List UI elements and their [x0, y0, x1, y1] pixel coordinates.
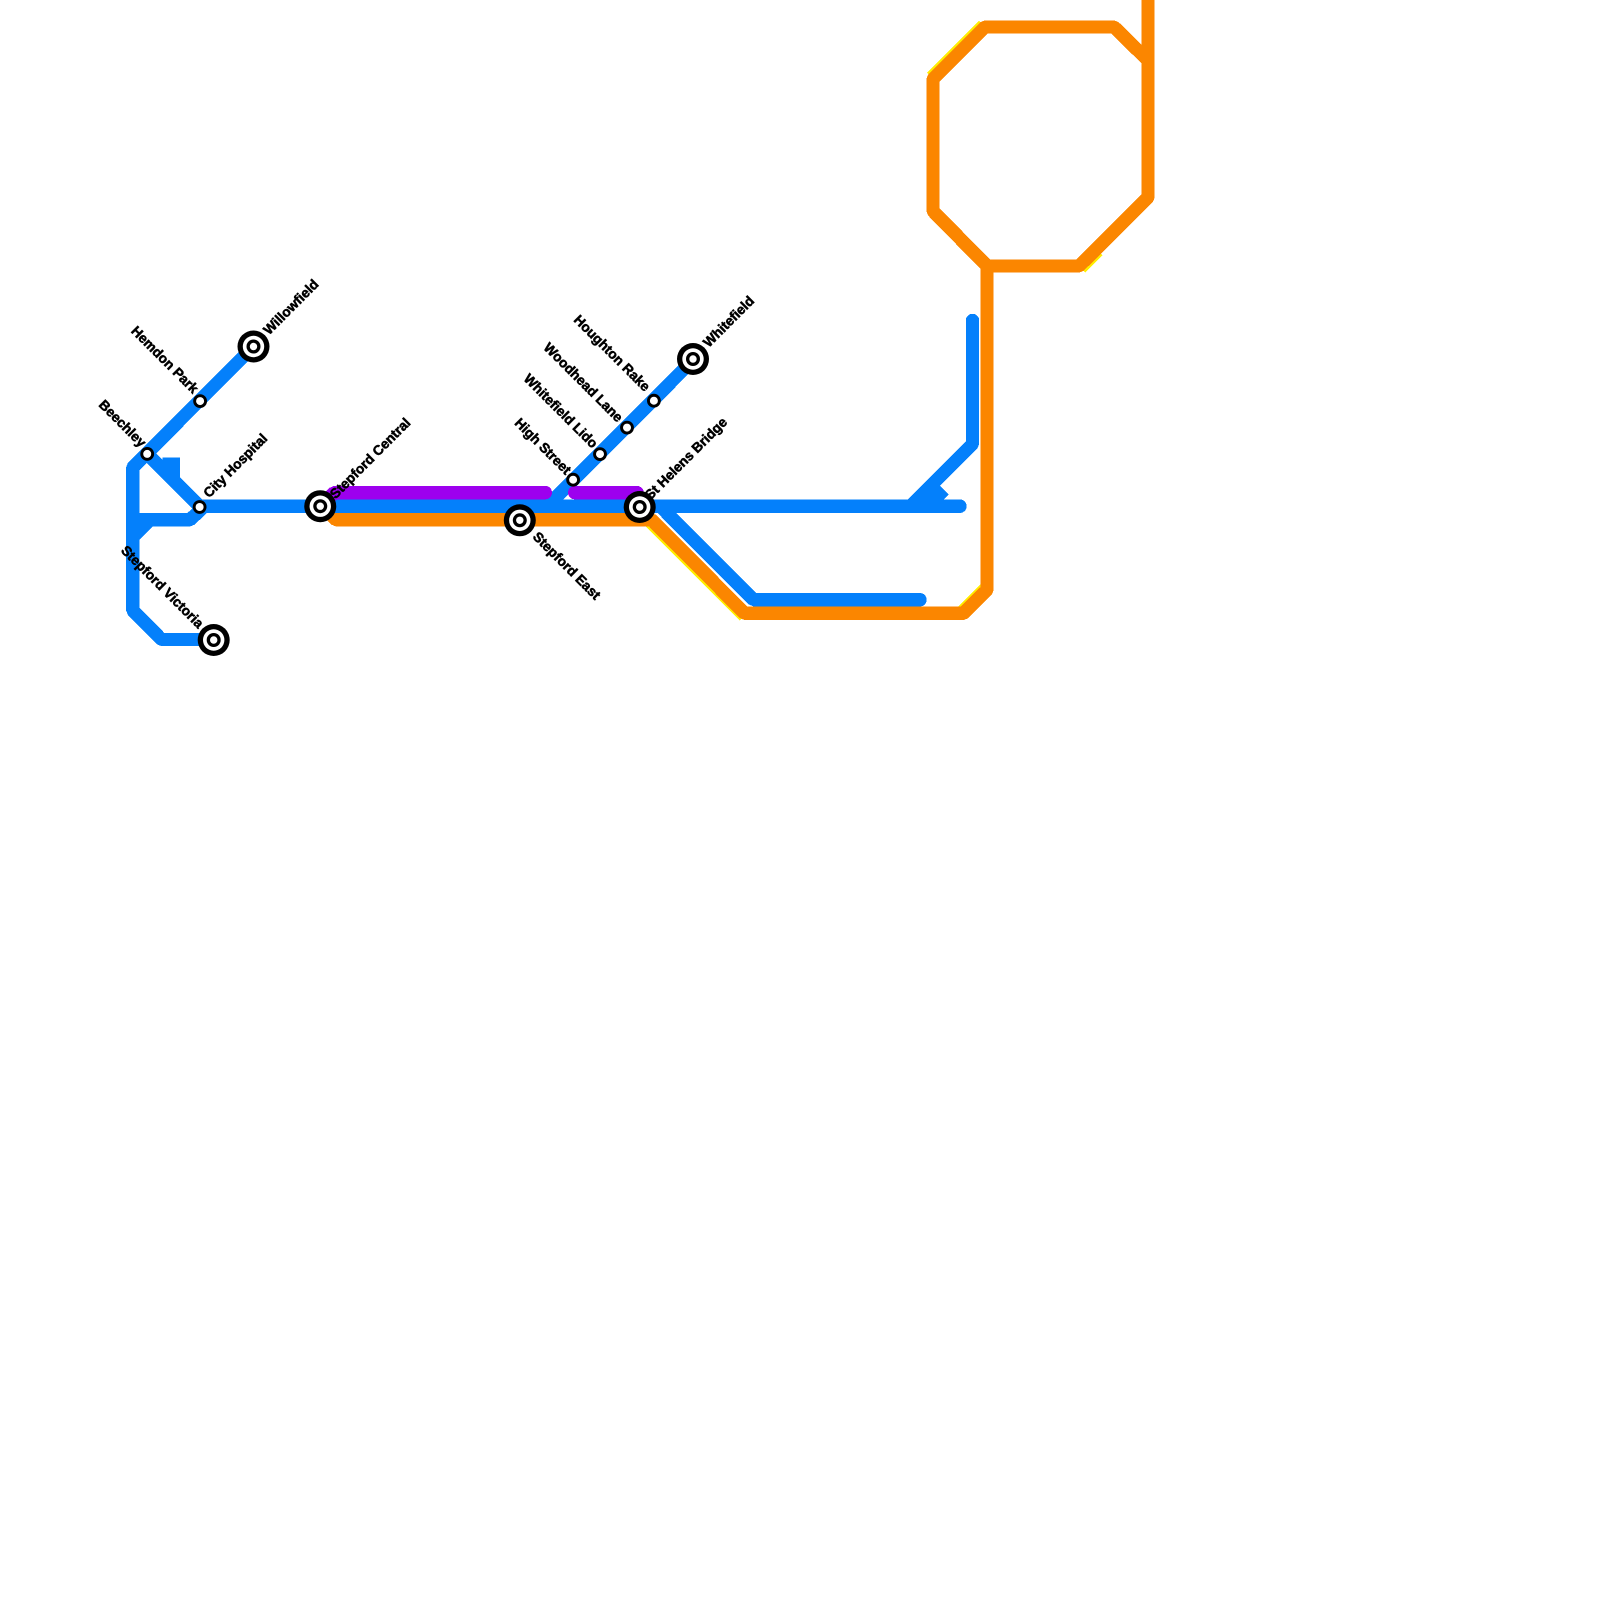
wire purple west segment — [323, 493, 546, 505]
wire yellow sliver St Helens descending diagonal — [647, 525, 741, 619]
node interchange Stepford Victoria — [198, 624, 230, 656]
node interchange Whitefield — [677, 343, 709, 375]
node station Woodhead Lane — [620, 421, 634, 435]
purple express line — [323, 493, 638, 505]
wire blue right T vertical — [910, 321, 972, 507]
node interchange St Helens Bridge — [624, 491, 656, 523]
node station Hemdon Park — [193, 394, 207, 408]
blue lines — [133, 321, 973, 640]
node interchange Stepford East — [504, 504, 536, 536]
wire blue Victoria connector band — [133, 506, 204, 520]
wire orange tail from top edge — [1141, 0, 1154, 60]
wire blue short service stub at junction — [928, 490, 945, 507]
wire purple east segment — [575, 486, 637, 499]
wire yellow sliver octagon top-left diagonal — [928, 22, 980, 74]
labels — [96, 277, 757, 632]
yellow express line slivers (under orange) — [647, 22, 1101, 619]
orange line (loop + tail + main) — [321, 0, 1148, 613]
wire orange octagon loop — [933, 27, 1148, 266]
wire blue lower branch from St Helens Bridge — [660, 506, 920, 600]
node station City Hospital — [193, 500, 207, 514]
node interchange Willowfield — [238, 331, 270, 363]
node notch on Beechley-City Hospital diagonal — [163, 458, 180, 478]
wire yellow sliver octagon bottom-right corner — [1084, 254, 1101, 271]
stations — [140, 331, 709, 657]
wire blue Victoria connector fillet — [133, 521, 149, 537]
node station Houghton Rake — [647, 394, 661, 408]
wire blue Willowfield - Beechley - Stepford Victoria — [133, 347, 254, 640]
wire blue Whitefield branch diagonal — [547, 360, 693, 506]
node station Whitefield Lido — [593, 447, 607, 461]
node station Beechley — [140, 447, 154, 461]
node station High Street — [566, 473, 580, 487]
wire blue Beechley - City Hospital - main line east — [147, 454, 960, 506]
wire orange vertical + lower route to Stepford Central — [321, 266, 987, 613]
wire yellow sliver lower-right corner diagonal — [959, 585, 982, 608]
node interchange Stepford Central — [304, 490, 336, 522]
